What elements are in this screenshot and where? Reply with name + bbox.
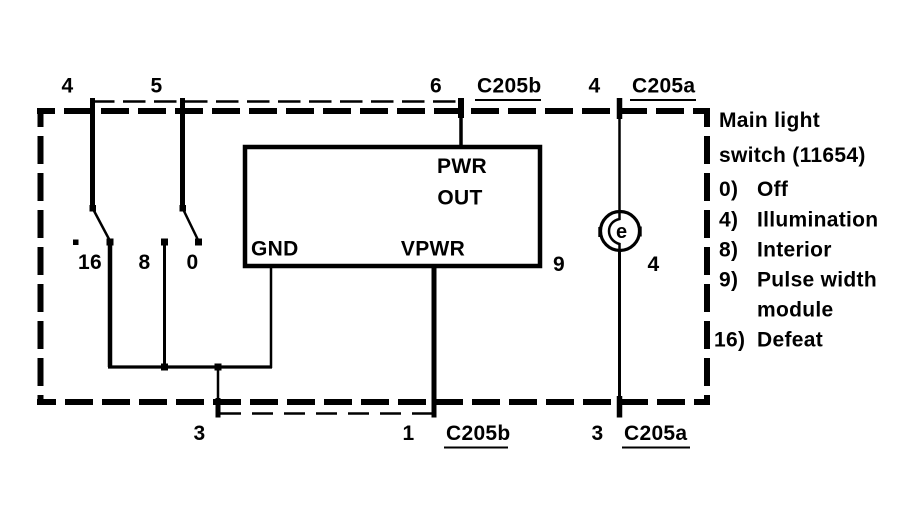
horizontal ground bus wire — [108, 365, 272, 368]
svg-text:Defeat: Defeat — [757, 329, 823, 352]
underline C205b bottom — [444, 447, 508, 449]
module box — [245, 147, 540, 266]
svg-text:0): 0) — [719, 178, 738, 201]
svg-text:1: 1 — [403, 422, 415, 445]
svg-text:Pulse width: Pulse width — [757, 269, 877, 292]
contact dot pin4 pivot — [90, 205, 97, 212]
svg-text:3: 3 — [194, 422, 206, 445]
svg-text:9): 9) — [719, 269, 738, 292]
contact dot pin5 pivot — [180, 205, 187, 212]
junction dot pin3-bus — [215, 364, 222, 371]
svg-text:9: 9 — [553, 253, 565, 276]
contact dot 16 — [107, 239, 114, 246]
svg-text:Main light: Main light — [719, 109, 820, 132]
svg-text:module: module — [757, 299, 833, 322]
svg-text:3: 3 — [592, 422, 604, 445]
svg-text:C205a: C205a — [624, 422, 687, 445]
underline C205a top — [630, 99, 696, 101]
svg-text:e: e — [616, 221, 627, 243]
dashed component border (main light switch box) — [37, 111, 710, 402]
wire pin 3 drop — [217, 366, 220, 401]
svg-text:C205a: C205a — [632, 75, 695, 98]
svg-text:5: 5 — [151, 75, 163, 98]
lone dot left of 16 — [73, 240, 79, 246]
svg-text:6: 6 — [430, 75, 442, 98]
svg-text:VPWR: VPWR — [401, 238, 465, 261]
svg-text:PWR: PWR — [437, 155, 487, 178]
svg-text:Off: Off — [757, 178, 789, 201]
PWR OUT wire pin 6 — [459, 103, 463, 148]
svg-text:0: 0 — [187, 251, 199, 274]
svg-text:8): 8) — [719, 239, 738, 262]
svg-text:C205b: C205b — [477, 75, 542, 98]
wire from contact 16 down — [108, 242, 113, 367]
GND wire — [270, 266, 273, 368]
lamp wire top pin 4 right — [618, 100, 621, 212]
contact dot 8 — [161, 239, 168, 246]
svg-text:C205b: C205b — [446, 422, 511, 445]
junction dot 8-bus — [161, 364, 168, 371]
svg-text:OUT: OUT — [437, 187, 482, 210]
underline C205b top — [475, 99, 541, 101]
VPWR wire pin 1 — [432, 266, 437, 418]
svg-text:4: 4 — [589, 75, 601, 98]
pin 3 connector stub — [216, 398, 221, 418]
lamp wire bottom pin 3 right — [618, 250, 621, 418]
lamp bulb circle — [601, 212, 640, 251]
lamp filament curve — [609, 212, 620, 250]
connector C205b thin dashed line (bottom) — [220, 412, 436, 415]
pin 4 right connector stub — [617, 98, 623, 119]
underline C205a bottom — [622, 447, 690, 449]
svg-text:switch (11654): switch (11654) — [719, 144, 866, 167]
svg-text:Interior: Interior — [757, 239, 832, 262]
pin 3 right connector stub — [617, 396, 623, 418]
svg-text:4): 4) — [719, 209, 738, 232]
svg-text:8: 8 — [139, 251, 151, 274]
pin 6 connector stub — [458, 98, 464, 118]
wire pin 5 vertical — [180, 98, 185, 208]
switch blade 5-0 — [183, 208, 199, 241]
svg-text:4: 4 — [62, 75, 74, 98]
wire contact 8 down — [163, 242, 166, 367]
switch blade 4-16 — [93, 208, 111, 241]
wire pin 4 vertical — [90, 98, 95, 208]
svg-text:16): 16) — [714, 329, 745, 352]
contact dot 0 — [195, 239, 202, 246]
svg-text:Illumination: Illumination — [757, 209, 878, 232]
svg-text:4: 4 — [648, 253, 660, 276]
svg-text:GND: GND — [251, 238, 299, 261]
connector C205b thin dashed line (top) — [92, 100, 463, 103]
svg-text:16: 16 — [78, 251, 102, 274]
